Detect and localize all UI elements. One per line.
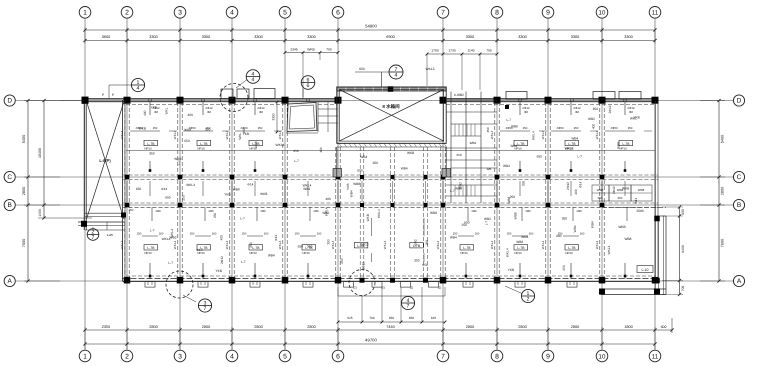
svg-text:1: 1: [83, 10, 87, 17]
svg-text:650: 650: [409, 316, 414, 320]
svg-text:L-7: L-7: [240, 217, 245, 221]
svg-text:650: 650: [422, 263, 428, 267]
svg-text:NP10: NP10: [514, 251, 522, 255]
svg-text:1300: 1300: [38, 209, 42, 217]
svg-text:WB4: WB4: [268, 253, 275, 257]
svg-text:400: 400: [143, 110, 147, 116]
svg-text:4: 4: [137, 86, 140, 92]
svg-text:WKB: WKB: [521, 235, 528, 239]
svg-text:3600: 3600: [102, 35, 110, 39]
svg-text:Φ14: Φ14: [196, 248, 202, 252]
svg-text:WB4: WB4: [510, 144, 517, 148]
svg-text:WB8: WB8: [233, 188, 240, 192]
svg-text:WB8: WB8: [507, 196, 511, 203]
svg-text:350: 350: [307, 244, 313, 248]
svg-text:5400: 5400: [721, 135, 725, 143]
svg-text:WB8: WB8: [353, 182, 360, 186]
svg-text:160: 160: [475, 232, 480, 236]
svg-text:49700: 49700: [365, 338, 377, 343]
svg-text:L-7: L-7: [506, 118, 511, 122]
svg-text:400: 400: [326, 197, 332, 201]
svg-text:2345: 2345: [290, 48, 298, 52]
svg-text:WB8: WB8: [514, 212, 518, 219]
svg-text:150: 150: [523, 126, 528, 130]
svg-text:WB4: WB4: [450, 235, 457, 239]
svg-text:WKL: WKL: [164, 107, 168, 114]
svg-text:6: 6: [307, 83, 310, 89]
svg-text:WKB: WKB: [307, 48, 315, 52]
svg-text:650: 650: [598, 196, 603, 200]
svg-text:1Φ6: 1Φ6: [155, 209, 161, 213]
svg-text:250: 250: [182, 195, 186, 201]
svg-text:WKL4: WKL4: [173, 131, 177, 140]
svg-text:L-7: L-7: [577, 155, 582, 159]
svg-text:900: 900: [681, 209, 685, 215]
svg-text:7: 7: [441, 353, 445, 360]
svg-text:3300: 3300: [518, 35, 526, 39]
svg-text:4: 4: [252, 77, 255, 83]
svg-text:150: 150: [190, 232, 195, 236]
svg-text:160: 160: [212, 232, 217, 236]
svg-text:11: 11: [652, 353, 659, 360]
svg-text:D: D: [737, 98, 742, 105]
svg-text:350: 350: [562, 217, 568, 221]
svg-text:YKB: YKB: [215, 269, 221, 273]
svg-text:WKL4: WKL4: [276, 143, 285, 147]
svg-text:150: 150: [242, 232, 247, 236]
svg-text:160: 160: [159, 232, 164, 236]
svg-text:WKB: WKB: [407, 151, 414, 155]
svg-text:11: 11: [652, 10, 659, 17]
svg-text:WKL4: WKL4: [490, 131, 494, 140]
svg-text:150: 150: [507, 232, 512, 236]
svg-text:WKL4: WKL4: [120, 131, 124, 140]
svg-text:L-7B: L-7B: [517, 246, 525, 250]
svg-text:3: 3: [178, 353, 182, 360]
svg-text:625: 625: [431, 316, 436, 320]
svg-text:250: 250: [456, 153, 461, 157]
svg-text:750: 750: [486, 49, 492, 53]
svg-text:3300: 3300: [272, 113, 276, 120]
svg-text:B: B: [737, 202, 741, 209]
svg-text:650: 650: [359, 67, 365, 71]
svg-text:4: 4: [230, 10, 234, 17]
svg-text:YKB: YKB: [508, 268, 514, 272]
svg-text:Φ14: Φ14: [579, 181, 583, 187]
svg-text:NP10: NP10: [565, 251, 573, 255]
svg-text:2350: 2350: [102, 325, 110, 329]
svg-text:WKL4: WKL4: [383, 241, 387, 250]
svg-text:L-7B: L-7B: [568, 142, 576, 146]
svg-text:WKL4: WKL4: [303, 183, 312, 187]
svg-text:625: 625: [347, 316, 352, 320]
svg-text:L-7B: L-7B: [622, 142, 630, 146]
svg-text:WB2: WB2: [470, 141, 477, 145]
svg-text:150: 150: [295, 232, 300, 236]
svg-text:B: B: [8, 202, 12, 209]
svg-text:8: 8: [495, 10, 499, 17]
svg-text:400: 400: [188, 113, 194, 117]
svg-text:WB8: WB8: [254, 141, 258, 148]
svg-text:WB8: WB8: [617, 188, 624, 192]
svg-text:WB4: WB4: [503, 164, 510, 168]
svg-text:A: A: [737, 278, 742, 285]
svg-text:WB4: WB4: [590, 221, 594, 228]
svg-text:WB4: WB4: [401, 167, 408, 171]
svg-text:600: 600: [661, 325, 667, 329]
svg-text:950: 950: [389, 316, 394, 320]
svg-text:(2): (2): [381, 286, 385, 290]
svg-text:WKL4: WKL4: [541, 131, 545, 140]
svg-text:450: 450: [319, 147, 323, 152]
svg-text:6: 6: [336, 10, 340, 17]
svg-text:L-7B: L-7B: [147, 246, 155, 250]
svg-text:350: 350: [414, 259, 420, 263]
svg-text:150: 150: [137, 232, 142, 236]
svg-text:L-7B: L-7B: [517, 142, 525, 146]
svg-text:NP10: NP10: [144, 251, 152, 255]
svg-text:250: 250: [129, 208, 134, 212]
svg-text:L-10: L-10: [641, 268, 648, 272]
svg-text:250: 250: [562, 265, 566, 271]
svg-text:WB4: WB4: [360, 155, 367, 159]
svg-text:L-7B: L-7B: [200, 142, 208, 146]
svg-text:2800: 2800: [22, 187, 26, 195]
svg-text:700: 700: [681, 286, 685, 292]
svg-text:(2): (2): [438, 286, 442, 290]
svg-text:2: 2: [527, 297, 530, 303]
svg-text:160: 160: [264, 232, 269, 236]
svg-text:A: A: [8, 278, 13, 285]
svg-text:WB8: WB8: [430, 211, 437, 215]
svg-text:1Φ6: 1Φ6: [576, 209, 582, 213]
svg-text:WB4: WB4: [303, 187, 310, 191]
svg-text:8: 8: [495, 353, 499, 360]
svg-text:WKL: WKL: [238, 133, 242, 140]
svg-text:2Φ12: 2Φ12: [608, 105, 612, 113]
svg-text:Φ8: Φ8: [154, 110, 158, 114]
svg-text:350: 350: [205, 127, 211, 131]
svg-text:2500: 2500: [636, 209, 643, 213]
svg-text:6900: 6900: [386, 35, 394, 39]
svg-text:650: 650: [165, 196, 171, 200]
svg-text:WKL3: WKL3: [426, 67, 435, 71]
svg-text:WKB: WKB: [618, 225, 625, 229]
svg-text:7: 7: [92, 235, 95, 241]
svg-text:1780: 1780: [431, 49, 439, 53]
svg-text:350: 350: [521, 181, 525, 187]
svg-text:YKB: YKB: [151, 106, 157, 110]
svg-text:WKB: WKB: [260, 192, 267, 196]
svg-text:780: 780: [326, 48, 332, 52]
svg-text:6: 6: [336, 353, 340, 360]
svg-text:2800: 2800: [202, 325, 210, 329]
svg-text:WKL4: WKL4: [532, 131, 536, 140]
svg-text:150: 150: [258, 126, 263, 130]
svg-text:WKL4: WKL4: [506, 248, 510, 257]
svg-text:150: 150: [628, 126, 633, 130]
svg-text:WKL4: WKL4: [225, 241, 229, 250]
svg-text:9: 9: [546, 10, 550, 17]
svg-text:1800: 1800: [624, 325, 632, 329]
svg-text:4Φ50: 4Φ50: [556, 126, 564, 130]
svg-text:D: D: [7, 98, 12, 105]
svg-text:WB8: WB8: [616, 142, 620, 149]
svg-text:250: 250: [213, 213, 217, 219]
svg-text:L-7: L-7: [484, 220, 488, 225]
svg-text:WKL4: WKL4: [186, 183, 195, 187]
svg-text:650: 650: [136, 187, 142, 191]
svg-text:10: 10: [599, 10, 606, 17]
svg-text:400: 400: [592, 124, 596, 130]
svg-text:350: 350: [593, 107, 599, 111]
svg-text:(2): (2): [353, 286, 357, 290]
svg-text:WKL4: WKL4: [173, 241, 177, 250]
svg-text:WB4: WB4: [573, 225, 577, 232]
svg-text:WKB: WKB: [366, 214, 370, 221]
svg-text:WKB: WKB: [184, 128, 191, 132]
svg-text:WKL4: WKL4: [278, 241, 282, 250]
svg-text:WKB: WKB: [139, 127, 146, 131]
svg-text:(2): (2): [410, 286, 414, 290]
svg-text:2Φ12: 2Φ12: [566, 182, 570, 190]
svg-text:NP10: NP10: [197, 147, 205, 151]
svg-text:150: 150: [153, 126, 158, 130]
svg-text:WB2: WB2: [414, 239, 418, 246]
svg-text:WB8: WB8: [638, 188, 645, 192]
svg-text:WB: WB: [487, 167, 492, 171]
svg-text:L-7: L-7: [168, 261, 173, 265]
svg-text:WB8: WB8: [597, 188, 604, 192]
svg-text:WKL4: WKL4: [595, 241, 599, 250]
svg-text:7: 7: [407, 304, 410, 310]
svg-text:2800: 2800: [466, 325, 474, 329]
svg-text:1730: 1730: [448, 49, 456, 53]
svg-text:L-7: L-7: [294, 159, 299, 163]
svg-text:L-8(P): L-8(P): [99, 158, 111, 163]
svg-text:WKL4: WKL4: [170, 229, 174, 238]
svg-text:Φ8: Φ8: [629, 110, 633, 114]
svg-text:Φ14: Φ14: [247, 182, 253, 186]
svg-text:2800: 2800: [307, 325, 315, 329]
svg-text:L-7B: L-7B: [463, 246, 471, 250]
svg-text:2: 2: [125, 353, 129, 360]
svg-text:1: 1: [83, 353, 87, 360]
svg-text:1Φ6: 1Φ6: [525, 209, 531, 213]
svg-text:160: 160: [317, 232, 322, 236]
svg-text:650: 650: [298, 245, 304, 249]
svg-text:250: 250: [461, 223, 467, 227]
svg-text:10400: 10400: [38, 148, 42, 158]
svg-text:NP10: NP10: [565, 147, 573, 151]
svg-text:NP10: NP10: [619, 147, 627, 151]
svg-text:WB8: WB8: [511, 124, 518, 128]
svg-text:2Φ12: 2Φ12: [361, 262, 365, 270]
svg-text:2Φ12: 2Φ12: [220, 256, 224, 264]
svg-text:Φ8: Φ8: [207, 110, 211, 114]
svg-text:650: 650: [618, 196, 623, 200]
svg-text:Φ14: Φ14: [274, 234, 278, 240]
svg-text:C: C: [737, 174, 742, 181]
svg-text:3300: 3300: [624, 35, 632, 39]
svg-text:Φ8: Φ8: [259, 110, 263, 114]
svg-text:3300: 3300: [466, 35, 474, 39]
svg-text:NP10: NP10: [302, 251, 310, 255]
svg-text:2: 2: [125, 10, 129, 17]
svg-text:4Φ50: 4Φ50: [610, 126, 618, 130]
svg-text:350: 350: [425, 240, 429, 246]
svg-text:7: 7: [204, 306, 207, 312]
svg-text:10: 10: [599, 353, 606, 360]
svg-text:150: 150: [574, 126, 579, 130]
svg-text:WKL4: WKL4: [595, 131, 599, 140]
svg-text:650: 650: [357, 169, 363, 173]
svg-text:WB4: WB4: [571, 137, 578, 141]
svg-text:8 水箱间: 8 水箱间: [382, 104, 400, 109]
svg-text:160: 160: [580, 232, 585, 236]
svg-text:650: 650: [373, 161, 379, 165]
svg-text:2800: 2800: [518, 325, 526, 329]
svg-text:2Φ12: 2Φ12: [361, 243, 369, 247]
svg-text:NP10: NP10: [249, 251, 257, 255]
svg-text:L-7B: L-7B: [147, 142, 155, 146]
svg-text:1125: 1125: [107, 233, 114, 237]
svg-text:b-WB2: b-WB2: [454, 93, 464, 97]
svg-text:250: 250: [340, 258, 344, 264]
svg-text:NP10: NP10: [144, 147, 152, 151]
svg-text:WB8: WB8: [516, 240, 523, 244]
svg-text:WB2: WB2: [588, 117, 595, 121]
svg-text:3: 3: [178, 10, 182, 17]
svg-text:1Φ6: 1Φ6: [208, 209, 214, 213]
svg-text:7440: 7440: [386, 325, 394, 329]
svg-text:650: 650: [293, 149, 298, 153]
svg-text:WKL4: WKL4: [225, 131, 229, 140]
svg-text:1Φ6: 1Φ6: [471, 209, 477, 213]
svg-text:54900: 54900: [365, 24, 377, 29]
svg-text:C: C: [7, 174, 12, 181]
svg-text:YKB: YKB: [633, 116, 639, 120]
svg-text:NP10: NP10: [460, 251, 468, 255]
svg-text:250: 250: [249, 242, 253, 248]
svg-text:160: 160: [529, 232, 534, 236]
svg-text:Φ8: Φ8: [524, 110, 528, 114]
svg-text:450: 450: [486, 127, 490, 132]
svg-text:2800: 2800: [721, 187, 725, 195]
svg-text:3300: 3300: [307, 35, 315, 39]
svg-text:2800: 2800: [254, 325, 262, 329]
svg-text:7: 7: [441, 10, 445, 17]
svg-text:WKL4: WKL4: [436, 241, 440, 250]
svg-text:WKL4: WKL4: [120, 241, 124, 250]
svg-text:650: 650: [184, 139, 190, 143]
svg-text:400: 400: [556, 234, 562, 238]
svg-text:L-7B: L-7B: [568, 246, 576, 250]
svg-text:YKB: YKB: [243, 132, 249, 136]
svg-text:2800: 2800: [571, 325, 579, 329]
svg-text:2800: 2800: [149, 325, 157, 329]
svg-text:L-7B: L-7B: [252, 246, 260, 250]
svg-text:5: 5: [283, 353, 287, 360]
svg-text:4: 4: [230, 353, 234, 360]
svg-text:YKB: YKB: [224, 192, 230, 196]
svg-text:L-7: L-7: [241, 260, 246, 264]
svg-text:WB2: WB2: [322, 211, 329, 215]
svg-text:1140: 1140: [467, 49, 474, 53]
svg-text:3300: 3300: [149, 35, 157, 39]
svg-text:350: 350: [149, 151, 155, 155]
svg-text:9: 9: [546, 353, 550, 360]
svg-text:5: 5: [283, 10, 287, 17]
svg-text:WKL4: WKL4: [541, 241, 545, 250]
svg-text:6400: 6400: [681, 245, 685, 253]
svg-text:400: 400: [219, 235, 223, 241]
svg-text:7600: 7600: [721, 239, 725, 247]
svg-text:650: 650: [537, 154, 543, 158]
svg-text:WKL4: WKL4: [607, 245, 611, 254]
svg-text:3300: 3300: [202, 35, 210, 39]
svg-text:7600: 7600: [22, 239, 26, 247]
svg-text:L-7: L-7: [150, 229, 155, 233]
svg-text:WB4: WB4: [350, 190, 354, 197]
svg-text:WKL4: WKL4: [331, 241, 335, 250]
svg-text:3300: 3300: [254, 35, 262, 39]
svg-text:Φ14: Φ14: [161, 187, 167, 191]
svg-text:L-7: L-7: [177, 160, 181, 165]
svg-text:350: 350: [326, 239, 330, 245]
svg-text:WKL4: WKL4: [377, 209, 381, 218]
svg-text:4: 4: [395, 73, 398, 79]
svg-text:400: 400: [574, 189, 578, 195]
svg-text:WKL4: WKL4: [490, 241, 494, 250]
svg-text:700: 700: [369, 316, 374, 320]
svg-text:5400: 5400: [22, 135, 26, 143]
svg-text:3300: 3300: [571, 35, 579, 39]
svg-text:WB8: WB8: [625, 237, 632, 241]
svg-text:1Φ6: 1Φ6: [260, 209, 266, 213]
svg-text:Φ14: Φ14: [634, 197, 638, 203]
svg-text:1Φ6: 1Φ6: [313, 209, 319, 213]
svg-text:Φ8: Φ8: [575, 110, 579, 114]
svg-text:YKB: YKB: [346, 184, 350, 190]
svg-text:WKL4: WKL4: [278, 131, 282, 140]
svg-text:WB2: WB2: [484, 217, 491, 221]
